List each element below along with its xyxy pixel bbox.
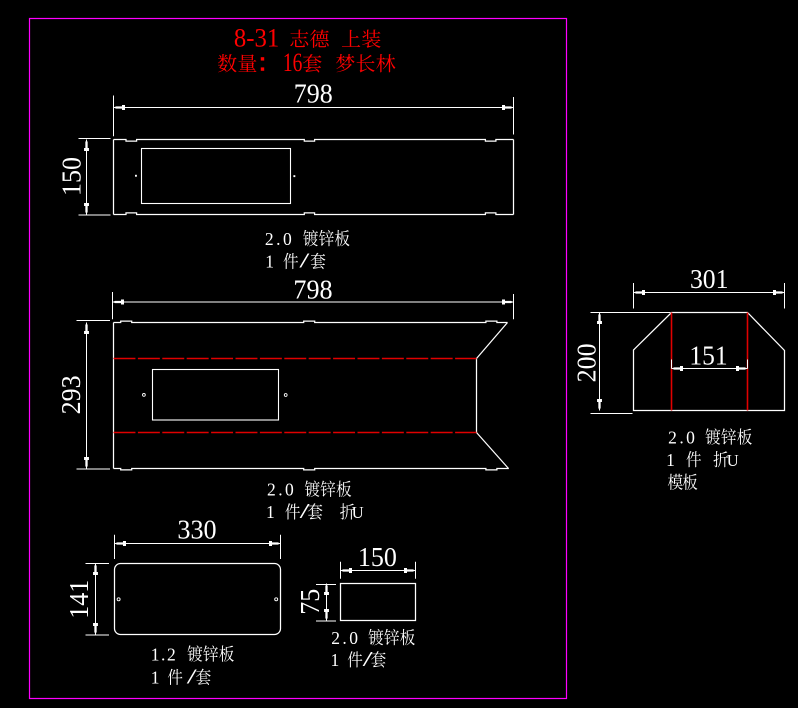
svg-text:2.0: 2.0	[265, 229, 292, 249]
svg-text:301: 301	[690, 264, 729, 294]
svg-text:1: 1	[265, 252, 274, 272]
svg-text:1: 1	[151, 668, 160, 688]
svg-text:8-31: 8-31	[234, 23, 279, 52]
svg-text:1: 1	[666, 450, 675, 470]
svg-text:798: 798	[294, 79, 333, 109]
svg-text:2.0: 2.0	[331, 628, 358, 648]
svg-text:150: 150	[56, 157, 86, 196]
svg-text:U: U	[727, 451, 739, 470]
svg-text:2.0: 2.0	[267, 480, 294, 500]
svg-text:293: 293	[56, 375, 86, 414]
svg-text:200: 200	[572, 343, 602, 382]
svg-text:150: 150	[358, 542, 397, 572]
svg-text:U: U	[352, 503, 364, 522]
svg-text:/: /	[299, 249, 309, 273]
svg-text:330: 330	[177, 515, 216, 545]
svg-text:1: 1	[266, 502, 275, 522]
svg-text:141: 141	[64, 580, 94, 619]
svg-text:1.2: 1.2	[151, 644, 176, 664]
svg-text:2.0: 2.0	[668, 427, 695, 447]
svg-text:16: 16	[283, 48, 303, 77]
svg-text:/: /	[187, 665, 197, 689]
svg-text:75: 75	[295, 589, 325, 615]
svg-text:798: 798	[293, 274, 332, 304]
svg-text:151: 151	[689, 341, 727, 371]
svg-text:1: 1	[331, 650, 340, 670]
